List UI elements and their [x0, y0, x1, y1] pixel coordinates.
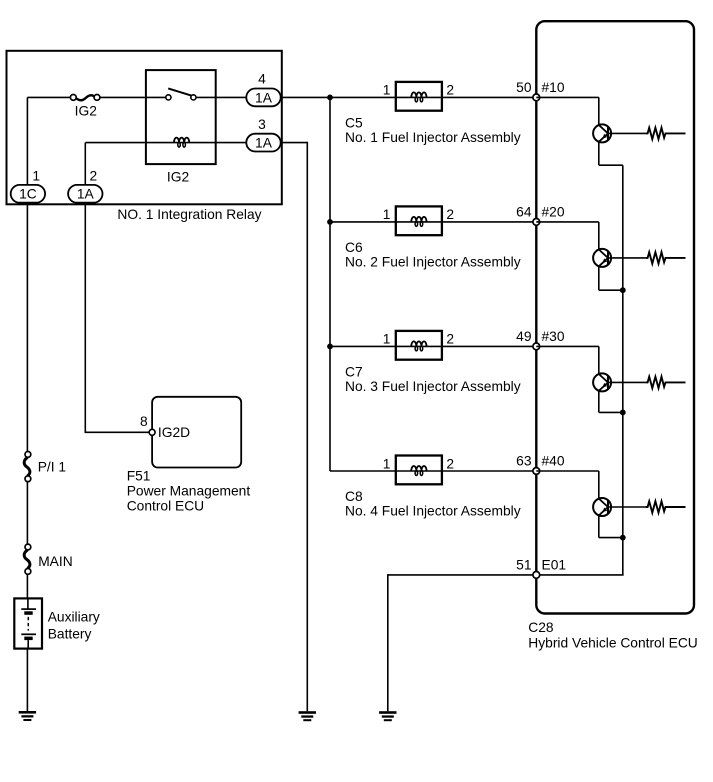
wire E01 to emitter bus: [536, 574, 623, 576]
ECU pin 63 (#40) terminal: [533, 468, 540, 475]
relay IG2 inner box: [146, 70, 216, 164]
svg-text:1C: 1C: [19, 187, 37, 202]
wire ECU pin 63 to Q4 collector: [536, 470, 599, 472]
wire pin2 down to F51 pin 8: [85, 204, 150, 432]
svg-text:No. 3 Fuel Injector Assembly: No. 3 Fuel Injector Assembly: [345, 379, 521, 394]
junction row3 bus: [327, 344, 333, 350]
svg-text:C7: C7: [345, 365, 363, 380]
svg-text:4: 4: [258, 72, 266, 87]
fuel injector C8: [396, 456, 442, 485]
svg-text:#20: #20: [542, 205, 565, 220]
wire ECU pin 50 to Q1 collector: [536, 96, 599, 98]
wire pin2 1A up to relay coil: [84, 143, 86, 185]
svg-text:Auxiliary: Auxiliary: [48, 609, 100, 624]
fuel injector C5: [396, 82, 442, 111]
wire fuse MAIN to battery: [26, 574, 28, 598]
svg-text:Power Management: Power Management: [127, 483, 251, 498]
fuse MAIN: [24, 544, 31, 574]
ECU box C28 Hybrid Vehicle Control ECU outline: [536, 21, 694, 613]
svg-text:#40: #40: [542, 454, 565, 469]
wire injector row 2: [330, 221, 536, 223]
ECU pin 64 (#20) terminal: [533, 219, 540, 226]
svg-text:2: 2: [446, 83, 454, 98]
relay box NO. 1 Integration Relay outline: [7, 51, 282, 205]
svg-text:IG2: IG2: [75, 103, 97, 118]
fuel injector C6: [396, 206, 442, 235]
svg-text:1: 1: [32, 169, 40, 184]
wire injector row 3: [330, 345, 536, 347]
svg-text:Battery: Battery: [48, 627, 92, 642]
wire fuse IG2 to relay switch: [99, 96, 166, 98]
wire base Q1 to resistor: [608, 132, 646, 134]
svg-text:C6: C6: [345, 240, 363, 255]
wire base Q3 to resistor: [608, 381, 646, 383]
svg-text:1A: 1A: [77, 187, 95, 202]
wire relay coil row: [85, 142, 247, 144]
svg-text:8: 8: [140, 414, 148, 429]
svg-text:50: 50: [516, 80, 532, 95]
fuse IG2: [70, 95, 100, 101]
wire relay coil ground drop: [306, 142, 308, 711]
svg-text:1: 1: [383, 332, 391, 347]
ECU pin 49 (#30) terminal: [533, 343, 540, 350]
ground relay coil: [299, 711, 316, 721]
svg-text:1: 1: [383, 207, 391, 222]
wire injector row 4: [330, 470, 536, 472]
svg-text:2: 2: [446, 456, 454, 471]
svg-text:C28: C28: [528, 620, 554, 635]
resistor R3: [646, 377, 686, 388]
fuel injector C7: [396, 331, 442, 360]
svg-text:IG2: IG2: [167, 170, 189, 185]
F51 Power Management Control ECU box: [152, 397, 241, 468]
transistor Q4 driver for #40: [593, 471, 623, 538]
junction emitter bus row4: [620, 535, 626, 541]
wire relay switch to pin 4: [196, 96, 247, 98]
svg-text:64: 64: [516, 205, 532, 220]
svg-text:3: 3: [258, 117, 266, 132]
svg-text:P/I 1: P/I 1: [38, 459, 66, 474]
svg-text:49: 49: [516, 329, 532, 344]
svg-text:2: 2: [446, 207, 454, 222]
F51 pin 8 (IG2D) terminal: [149, 429, 155, 435]
junction row2 bus: [327, 219, 333, 225]
wire fuse P/I 1 to fuse MAIN: [26, 482, 28, 545]
transistor Q1 driver for #10: [593, 97, 623, 165]
svg-text:2: 2: [446, 332, 454, 347]
connector pin 4 (1A): [246, 89, 280, 107]
svg-text:E01: E01: [542, 558, 567, 573]
svg-text:51: 51: [516, 558, 531, 573]
ECU pin 50 (#10) terminal: [533, 94, 540, 101]
svg-text:2: 2: [90, 169, 98, 184]
wire pin 4 to ECU pin 50 row1: [280, 96, 536, 98]
wire ECU pin 64 to Q2 collector: [536, 221, 599, 223]
svg-text:No. 2 Fuel Injector Assembly: No. 2 Fuel Injector Assembly: [345, 254, 521, 269]
transistor Q2 driver for #20: [593, 222, 623, 290]
wire to fuse IG2: [27, 96, 71, 98]
svg-text:63: 63: [516, 454, 532, 469]
battery box: [14, 598, 42, 648]
svg-text:1: 1: [383, 456, 391, 471]
svg-text:F51: F51: [127, 469, 151, 484]
svg-text:1A: 1A: [255, 90, 273, 105]
resistor R4: [646, 501, 686, 512]
wire emitter bus: [622, 165, 624, 575]
wire pin 3 to ground line: [280, 142, 307, 144]
svg-text:#10: #10: [542, 80, 565, 95]
svg-text:NO. 1 Integration Relay: NO. 1 Integration Relay: [117, 207, 261, 222]
svg-text:Hybrid Vehicle Control ECU: Hybrid Vehicle Control ECU: [528, 636, 697, 651]
ground battery: [19, 711, 36, 721]
relay switch contacts: [166, 88, 196, 100]
transistor Q3 driver for #30: [593, 346, 623, 412]
wire pin1 1C up to IG2 fuse: [26, 97, 28, 184]
connector pin 3 (1A): [246, 134, 280, 152]
svg-text:No. 4 Fuel Injector Assembly: No. 4 Fuel Injector Assembly: [345, 504, 521, 519]
svg-text:MAIN: MAIN: [38, 554, 72, 569]
junction row1 bus: [327, 95, 333, 101]
wire ECU pin 49 to Q3 collector: [536, 345, 599, 347]
fuse P/I 1: [24, 452, 31, 482]
svg-text:#30: #30: [542, 329, 565, 344]
wire base Q2 to resistor: [608, 257, 646, 259]
svg-text:No. 1 Fuel Injector Assembly: No. 1 Fuel Injector Assembly: [345, 130, 521, 145]
junction emitter bus row2: [620, 287, 626, 293]
svg-text:C8: C8: [345, 489, 363, 504]
resistor R2: [646, 252, 686, 263]
wire base Q4 to resistor: [608, 506, 646, 508]
wire E01 row to ground: [388, 575, 537, 711]
wire pin1 down to fuse P/I 1: [26, 204, 28, 452]
connector pin 1 (1C): [11, 185, 45, 203]
svg-text:1A: 1A: [255, 136, 273, 151]
wire injector feed bus: [329, 97, 331, 471]
relay coil IG2: [174, 138, 189, 148]
junction emitter bus row3: [620, 410, 626, 416]
svg-text:IG2D: IG2D: [158, 425, 190, 440]
resistor R1: [646, 128, 686, 139]
svg-text:1: 1: [383, 83, 391, 98]
svg-text:C5: C5: [345, 116, 363, 131]
ground E01: [379, 711, 396, 721]
wire battery to ground: [26, 648, 28, 711]
ECU pin 51 (E01) terminal: [533, 572, 540, 579]
svg-text:Control ECU: Control ECU: [127, 498, 204, 513]
auxiliary battery cells: [21, 598, 36, 648]
connector pin 2 (1A): [68, 185, 102, 203]
